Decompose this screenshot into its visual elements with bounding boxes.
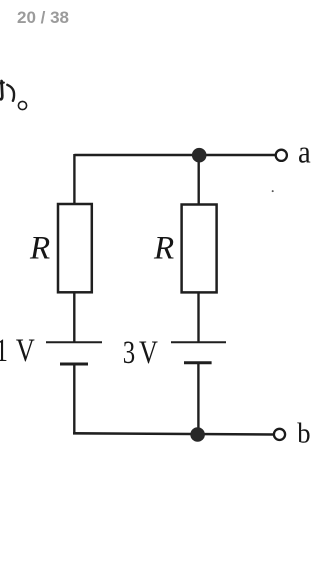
svg-text:V: V: [139, 335, 158, 371]
svg-text:a: a: [298, 134, 311, 170]
svg-text:1: 1: [0, 333, 8, 369]
svg-text:R: R: [29, 231, 50, 267]
svg-text:20 / 38: 20 / 38: [17, 8, 69, 27]
svg-text:b: b: [297, 418, 310, 450]
svg-text:V: V: [16, 333, 35, 369]
svg-text:3: 3: [123, 335, 135, 371]
svg-text:R: R: [153, 231, 174, 267]
